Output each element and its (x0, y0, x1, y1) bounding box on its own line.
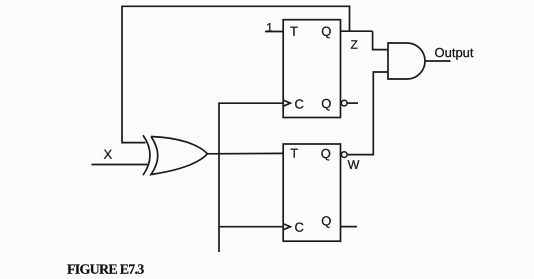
clock triangle pin C of U2 (283, 224, 290, 230)
svg-text:Q: Q (321, 24, 331, 39)
clock triangle pin C of U1 (283, 100, 290, 106)
svg-text:1: 1 (266, 20, 273, 34)
wire: feedback from node Z up, across top, down to XOR top input (122, 6, 350, 142)
wire: XOR output across clock node to T input of U2 (207, 152, 283, 154)
wire: stub from Q-bar bubble of U1 (347, 102, 358, 104)
wire: node W right and up into AND gate bottom input (347, 72, 388, 155)
wire: stub from Q-bar of U2 (341, 226, 358, 228)
svg-text:T: T (290, 146, 298, 161)
svg-text:C: C (294, 220, 303, 235)
flip-flop U1 (top T flip-flop) (283, 20, 340, 118)
svg-text:W: W (348, 158, 360, 172)
svg-text:Q: Q (321, 213, 331, 228)
wire: clock stub hanging below (218, 227, 220, 252)
svg-text:T: T (290, 24, 298, 39)
svg-text:X: X (103, 147, 112, 162)
wire: constant 1 stub to T input of U1 (265, 31, 283, 33)
XOR gate G1 (143, 135, 208, 175)
wire: AND gate output (425, 60, 451, 62)
svg-text:Z: Z (350, 38, 357, 52)
svg-text:FIGURE E7.3: FIGURE E7.3 (67, 263, 144, 278)
AND gate G2 (388, 43, 425, 79)
wire: node Z down and into AND gate top input (373, 31, 388, 49)
svg-text:Output: Output (434, 45, 473, 60)
bubble on Q output of U2 (node W) (341, 152, 347, 158)
wire: Q of U1 to node Z corner (340, 30, 373, 32)
bubble on Q-bar output of U1 (341, 100, 347, 106)
wire: clock branch up to C input of U1 (219, 103, 283, 153)
svg-text:C: C (294, 96, 303, 111)
svg-text:Q: Q (321, 146, 331, 161)
flip-flop U2 (bottom T flip-flop) (283, 144, 340, 241)
wire: clock branch down to C input of U2 (219, 154, 283, 227)
wire: input X to XOR bottom input (92, 164, 148, 166)
svg-text:Q: Q (321, 96, 331, 111)
